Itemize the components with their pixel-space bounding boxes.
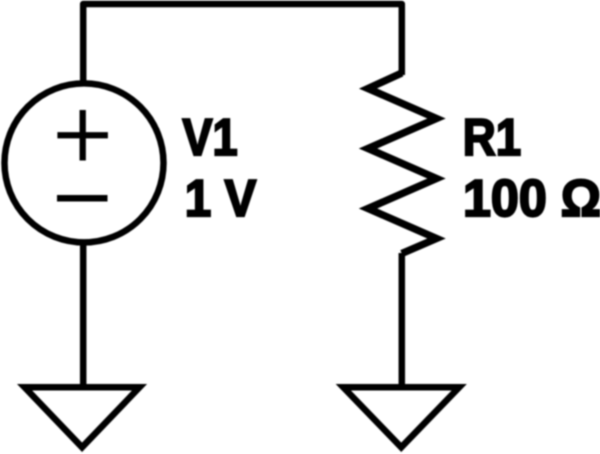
svg-text:100 Ω: 100 Ω [463, 170, 600, 228]
svg-text:R1: R1 [463, 109, 521, 167]
resistor R1 zigzag [368, 73, 437, 254]
voltage source V1 circle [5, 83, 164, 242]
svg-text:1 V: 1 V [185, 170, 257, 228]
wire: top net connecting V1 top to R1 top [83, 4, 402, 82]
ground (right) [343, 387, 459, 447]
ground (left) [25, 387, 140, 447]
wire: R1 bottom to right ground [399, 253, 406, 387]
svg-text:V1: V1 [182, 109, 237, 167]
V1 plus sign [57, 110, 108, 161]
wire: V1 bottom to left ground [80, 244, 87, 387]
V1 minus sign [57, 195, 108, 202]
